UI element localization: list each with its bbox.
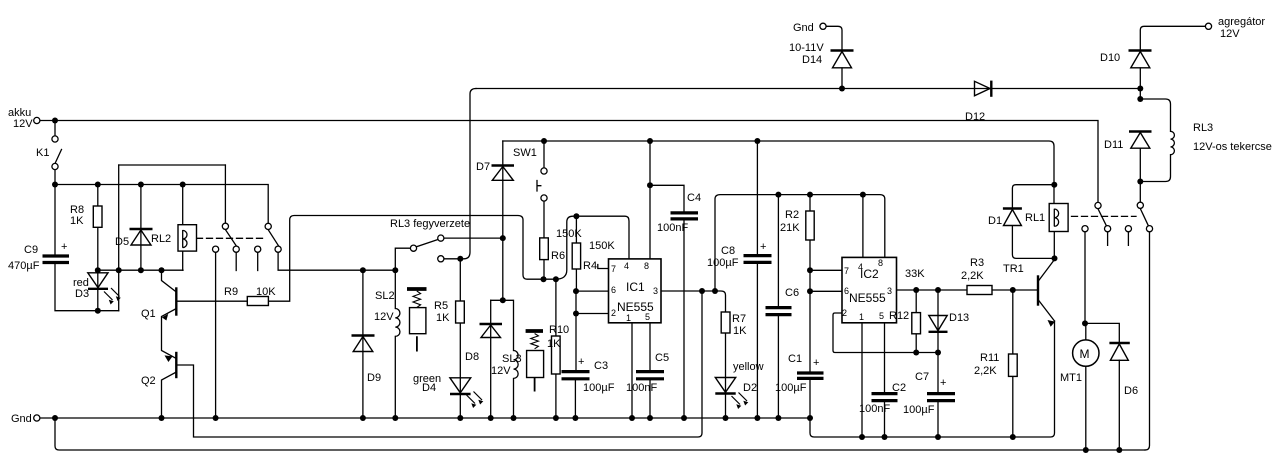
svg-text:1: 1 — [859, 312, 864, 322]
svg-text:SL2: SL2 — [375, 290, 395, 302]
svg-text:100µF: 100µF — [903, 404, 935, 416]
svg-text:R5: R5 — [434, 300, 448, 312]
svg-text:Q1: Q1 — [141, 308, 156, 320]
svg-text:12V: 12V — [374, 311, 394, 323]
svg-text:150K: 150K — [556, 228, 582, 240]
svg-text:12V: 12V — [491, 365, 511, 377]
svg-text:+: + — [61, 241, 67, 253]
svg-text:D13: D13 — [949, 312, 969, 324]
svg-text:10K: 10K — [256, 286, 276, 298]
svg-text:C7: C7 — [915, 371, 929, 383]
svg-text:C3: C3 — [594, 360, 608, 372]
svg-text:Q2: Q2 — [141, 375, 156, 387]
svg-text:SW1: SW1 — [513, 147, 537, 159]
svg-text:8: 8 — [878, 258, 883, 268]
svg-text:D7: D7 — [476, 161, 490, 173]
svg-text:D5: D5 — [115, 236, 129, 248]
svg-text:M: M — [1080, 347, 1090, 361]
svg-text:33K: 33K — [905, 268, 925, 280]
svg-text:R6: R6 — [551, 250, 565, 262]
svg-text:R10: R10 — [549, 324, 569, 336]
svg-text:R9: R9 — [224, 286, 238, 298]
svg-text:8: 8 — [644, 261, 649, 271]
svg-text:7: 7 — [844, 266, 849, 276]
svg-text:C6: C6 — [785, 287, 799, 299]
svg-text:D10: D10 — [1100, 52, 1120, 64]
svg-text:C1: C1 — [788, 353, 802, 365]
svg-text:470µF: 470µF — [8, 260, 40, 272]
svg-text:R12: R12 — [889, 310, 909, 322]
svg-text:RL1: RL1 — [1025, 212, 1045, 224]
svg-text:K1: K1 — [36, 147, 49, 159]
svg-text:R2: R2 — [785, 209, 799, 221]
svg-text:D12: D12 — [965, 111, 985, 123]
svg-text:100µF: 100µF — [775, 382, 807, 394]
svg-text:R7: R7 — [732, 313, 746, 325]
svg-text:D6: D6 — [1124, 385, 1138, 397]
svg-text:D9: D9 — [367, 372, 381, 384]
svg-text:D4: D4 — [422, 382, 436, 394]
svg-text:TR1: TR1 — [1003, 263, 1024, 275]
svg-text:2,2K: 2,2K — [961, 270, 984, 282]
svg-text:100µF: 100µF — [707, 257, 739, 269]
svg-text:12V: 12V — [1220, 28, 1240, 40]
svg-text:agregátor: agregátor — [1218, 16, 1265, 28]
svg-text:D14: D14 — [802, 54, 822, 66]
svg-text:4: 4 — [624, 261, 629, 271]
svg-text:10-11V: 10-11V — [789, 42, 824, 54]
svg-text:+: + — [760, 241, 766, 253]
svg-text:5: 5 — [645, 312, 650, 322]
svg-text:1K: 1K — [436, 312, 450, 324]
svg-text:NE555: NE555 — [849, 291, 886, 305]
svg-text:3: 3 — [887, 286, 892, 296]
svg-text:R11: R11 — [980, 352, 999, 364]
svg-text:100nF: 100nF — [626, 382, 657, 394]
svg-text:1K: 1K — [733, 325, 747, 337]
svg-text:100µF: 100µF — [583, 382, 615, 394]
svg-text:RL3 fegyverzete: RL3 fegyverzete — [390, 218, 470, 230]
svg-text:12V-os tekercse: 12V-os tekercse — [1193, 141, 1272, 153]
svg-text:7: 7 — [611, 264, 616, 274]
svg-text:5: 5 — [879, 311, 884, 321]
svg-text:D11: D11 — [1104, 139, 1123, 151]
svg-text:3: 3 — [653, 286, 658, 296]
svg-text:R4: R4 — [583, 260, 597, 272]
svg-text:+: + — [578, 356, 584, 368]
svg-text:R3: R3 — [970, 257, 984, 269]
svg-text:12V: 12V — [13, 118, 33, 130]
svg-text:IC1: IC1 — [626, 280, 645, 294]
svg-text:C9: C9 — [24, 244, 38, 256]
svg-text:Gnd: Gnd — [11, 413, 32, 425]
svg-text:C2: C2 — [892, 382, 906, 394]
svg-text:2: 2 — [842, 308, 847, 318]
svg-text:MT1: MT1 — [1060, 372, 1082, 384]
svg-text:+: + — [813, 357, 819, 369]
svg-text:D1: D1 — [988, 215, 1002, 227]
svg-text:SL3: SL3 — [502, 353, 522, 365]
svg-text:C4: C4 — [687, 192, 701, 204]
svg-text:+: + — [940, 377, 946, 389]
svg-text:6: 6 — [611, 285, 616, 295]
svg-text:100nF: 100nF — [859, 403, 890, 415]
svg-text:RL3: RL3 — [1193, 122, 1213, 134]
svg-text:2: 2 — [611, 308, 616, 318]
svg-text:C8: C8 — [721, 245, 735, 257]
svg-text:1K: 1K — [70, 215, 84, 227]
svg-text:6: 6 — [844, 286, 849, 296]
svg-text:C5: C5 — [655, 352, 669, 364]
svg-text:1K: 1K — [547, 338, 561, 350]
svg-text:150K: 150K — [589, 240, 615, 252]
svg-text:D8: D8 — [465, 351, 479, 363]
svg-text:RL2: RL2 — [151, 233, 171, 245]
svg-text:D2: D2 — [743, 382, 757, 394]
svg-text:D3: D3 — [75, 288, 89, 300]
svg-text:Gnd: Gnd — [793, 22, 814, 34]
svg-text:yellow: yellow — [733, 361, 764, 373]
svg-text:1: 1 — [626, 313, 631, 323]
svg-text:21K: 21K — [780, 222, 800, 234]
svg-text:100nF: 100nF — [657, 222, 688, 234]
svg-text:4: 4 — [858, 262, 863, 272]
svg-text:2,2K: 2,2K — [974, 365, 997, 377]
